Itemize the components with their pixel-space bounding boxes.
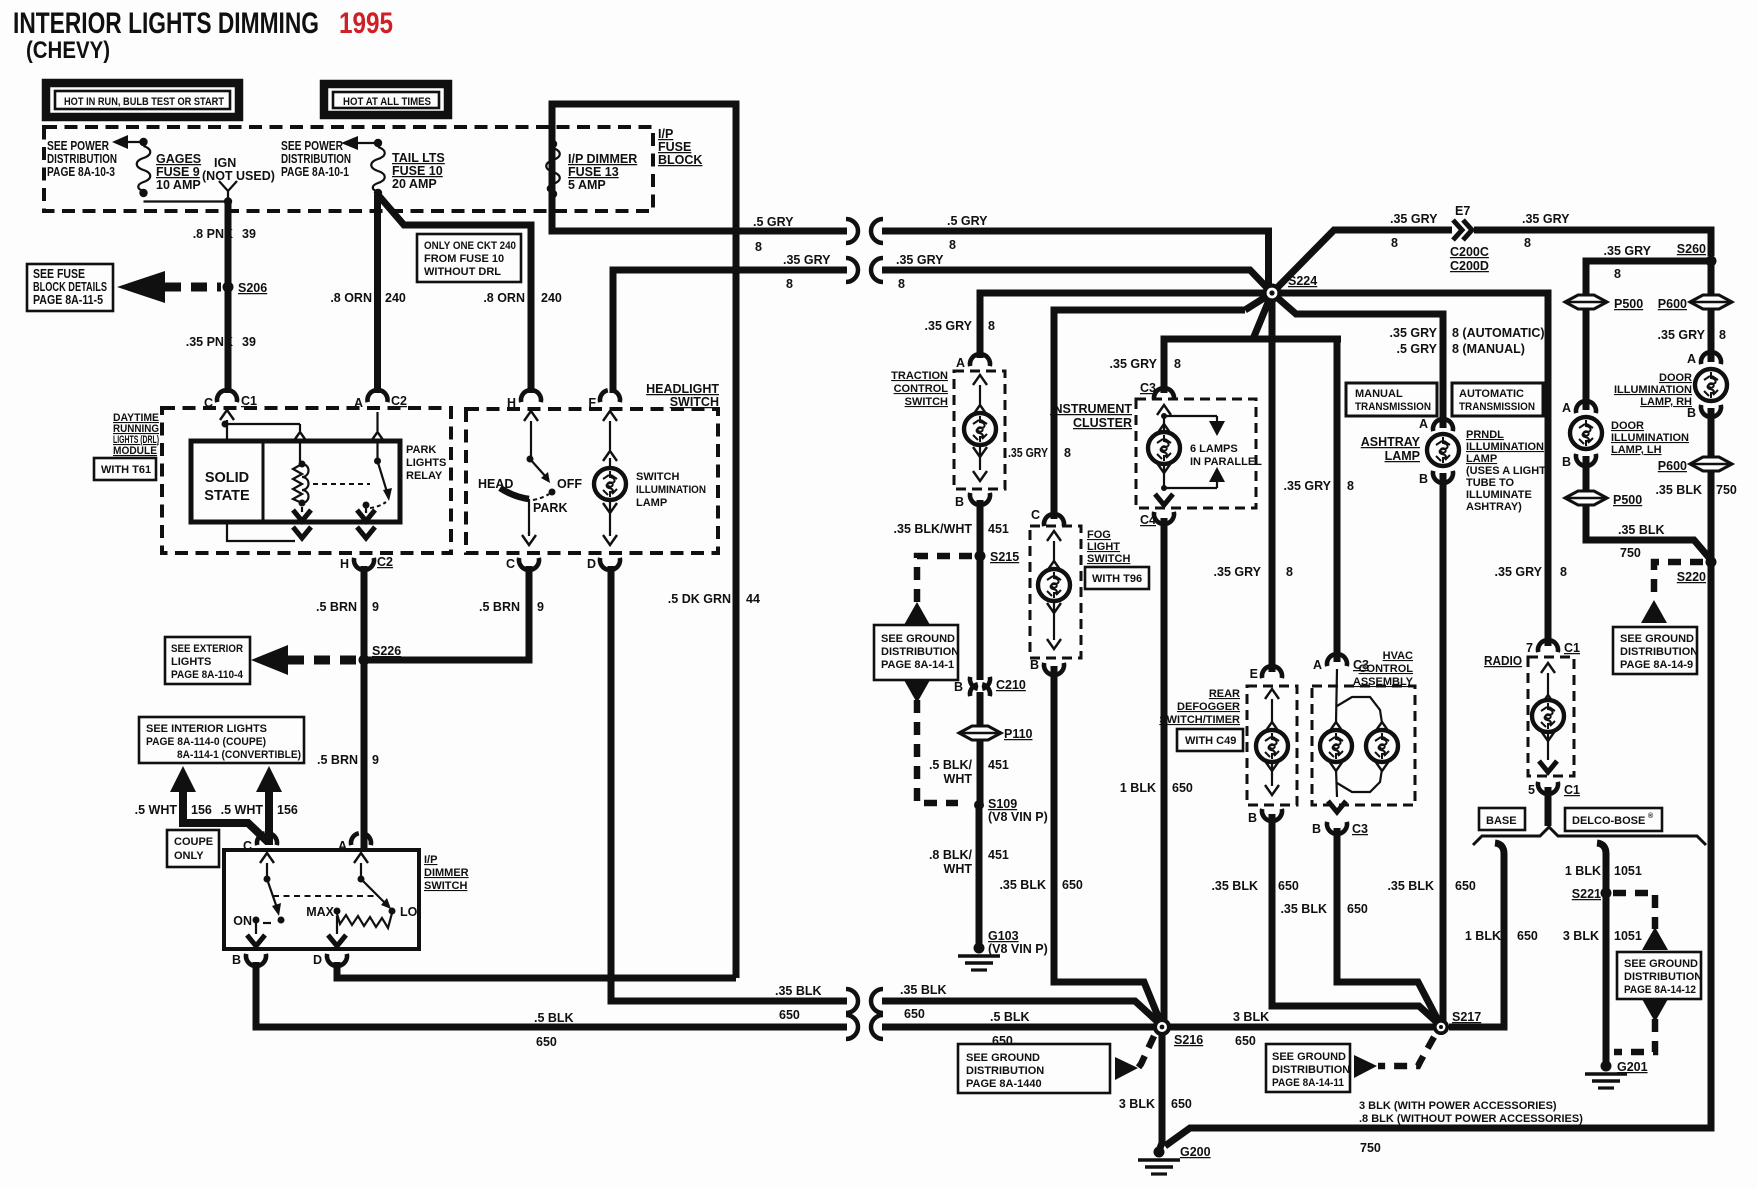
arrow down (8A-14-12) bbox=[1642, 999, 1668, 1022]
svg-text:LAMP: LAMP bbox=[636, 497, 667, 509]
label .8 PNK 39 bbox=[193, 227, 256, 241]
wire radio 5 to base/delco brace bbox=[1545, 787, 1552, 826]
svg-text:C3: C3 bbox=[1352, 822, 1368, 836]
HVAC dashed box bbox=[1312, 686, 1415, 805]
see ground distribution 8A-14-1 note bbox=[874, 625, 959, 680]
pin chevron F bbox=[603, 411, 617, 467]
svg-text:.5 DK GRN: .5 DK GRN bbox=[668, 592, 731, 606]
svg-text:CONTROL: CONTROL bbox=[894, 383, 949, 395]
svg-text:3 BLK: 3 BLK bbox=[1119, 1097, 1155, 1111]
svg-text:3 BLK: 3 BLK bbox=[1233, 1010, 1269, 1024]
svg-text:.35 BLK: .35 BLK bbox=[900, 983, 947, 997]
svg-text:.5 BLK: .5 BLK bbox=[990, 1010, 1030, 1024]
door illumination lamp LH bbox=[1570, 417, 1689, 456]
svg-text:HVAC: HVAC bbox=[1383, 650, 1413, 662]
FOG LIGHT SWITCH label bbox=[1087, 529, 1130, 565]
splice S216 bbox=[1153, 1018, 1203, 1047]
ground distribution dashed path (S220) bbox=[1654, 562, 1703, 601]
PRNDL illumination lamp note bbox=[1466, 429, 1546, 513]
pin chevron C1 bbox=[220, 410, 234, 441]
wire headlight C to S226 bbox=[368, 566, 529, 660]
wire wiper to C bbox=[522, 499, 536, 545]
wire base radio ground bbox=[1449, 843, 1504, 1027]
wire dimmer D to headlight D splice bbox=[337, 962, 736, 978]
splice S221 bbox=[1572, 887, 1612, 901]
svg-text:ON: ON bbox=[233, 914, 252, 928]
svg-text:S217: S217 bbox=[1452, 1010, 1481, 1024]
svg-text:A: A bbox=[354, 396, 363, 410]
svg-text:SEE GROUND: SEE GROUND bbox=[1620, 633, 1694, 645]
connector B (rear defogger) bbox=[1248, 809, 1282, 825]
svg-text:5: 5 bbox=[1528, 783, 1535, 797]
svg-text:PAGE 8A-14-11: PAGE 8A-14-11 bbox=[1272, 1077, 1344, 1089]
wire RH lamp B to S220 bbox=[1708, 408, 1715, 562]
svg-text:.35 BLK: .35 BLK bbox=[775, 984, 822, 998]
svg-text:3 BLK (WITH POWER ACCESSORIES: 3 BLK (WITH POWER ACCESSORIES) bbox=[1359, 1100, 1557, 1112]
svg-text:P500: P500 bbox=[1613, 493, 1642, 507]
label .5 BLK 650 (right) bbox=[990, 1010, 1030, 1048]
wire S260 to RH door lamp bbox=[1708, 261, 1715, 362]
in-line connector P600 (return) bbox=[1658, 457, 1732, 473]
TRACTION CONTROL SWITCH label bbox=[891, 370, 948, 408]
svg-text:.5 WHT: .5 WHT bbox=[135, 803, 178, 817]
relay coil bbox=[293, 461, 309, 507]
see power distribution arrow (left) bbox=[112, 135, 144, 149]
connector B (door lamp RH) bbox=[1687, 405, 1721, 420]
svg-text:RELAY: RELAY bbox=[406, 470, 443, 482]
switch illumination lamp label bbox=[636, 471, 706, 509]
svg-text:PAGE 8A-14-12: PAGE 8A-14-12 bbox=[1624, 984, 1696, 996]
svg-text:8: 8 bbox=[1391, 236, 1398, 250]
svg-text:FROM FUSE 10: FROM FUSE 10 bbox=[424, 253, 504, 265]
label .5 BRN 9 (left) bbox=[316, 600, 379, 614]
coupe feed arrow (left) bbox=[170, 766, 268, 842]
svg-text:.35 BLK: .35 BLK bbox=[1387, 879, 1434, 893]
svg-text:650: 650 bbox=[1517, 929, 1538, 943]
svg-text:INTERIOR LIGHTS DIMMING: INTERIOR LIGHTS DIMMING bbox=[13, 7, 319, 40]
svg-text:.35 GRY: .35 GRY bbox=[1110, 357, 1158, 371]
svg-text:.35 GRY: .35 GRY bbox=[925, 319, 973, 333]
svg-text:SWITCH/TIMER: SWITCH/TIMER bbox=[1159, 714, 1240, 726]
wire .5 GRY 8 (fuse 13 output) bbox=[736, 219, 858, 243]
radio lamp bbox=[1532, 663, 1564, 772]
svg-text:C200D: C200D bbox=[1450, 259, 1489, 273]
svg-text:10 AMP: 10 AMP bbox=[156, 178, 201, 192]
svg-text:156: 156 bbox=[277, 803, 298, 817]
svg-text:8: 8 bbox=[988, 319, 995, 333]
svg-text:TUBE TO: TUBE TO bbox=[1466, 477, 1515, 489]
dimmer ON/OFF switch bbox=[233, 853, 284, 928]
svg-text:HOT IN RUN, BULB TEST OR START: HOT IN RUN, BULB TEST OR START bbox=[64, 96, 224, 108]
svg-text:LIGHTS: LIGHTS bbox=[171, 656, 211, 668]
svg-text:.5 BRN: .5 BRN bbox=[317, 753, 358, 767]
see power distribution 8A-10-1 note bbox=[281, 139, 351, 179]
HVAC lamp 2 bbox=[1337, 697, 1398, 792]
traction control switch dashed box bbox=[954, 371, 1005, 489]
svg-text:6 LAMPS: 6 LAMPS bbox=[1190, 443, 1238, 455]
svg-text:(V8 VIN P): (V8 VIN P) bbox=[988, 942, 1048, 956]
svg-text:650: 650 bbox=[992, 1034, 1013, 1048]
I/P FUSE BLOCK label bbox=[658, 127, 702, 167]
svg-text:ILLUMINATION: ILLUMINATION bbox=[1611, 432, 1689, 444]
svg-text:8 (MANUAL): 8 (MANUAL) bbox=[1452, 342, 1525, 356]
svg-text:650: 650 bbox=[904, 1007, 925, 1021]
svg-text:TRANSMISSION: TRANSMISSION bbox=[1459, 401, 1535, 413]
wire .8 PNK 39 / .35 PNK 39 bbox=[225, 202, 232, 393]
svg-text:LIGHTS: LIGHTS bbox=[406, 457, 446, 469]
pin chevron H bbox=[524, 411, 538, 459]
svg-text:DISTRIBUTION: DISTRIBUTION bbox=[881, 646, 959, 658]
svg-text:SEE EXTERIOR: SEE EXTERIOR bbox=[171, 643, 243, 655]
6 lamps in parallel note bbox=[1164, 416, 1262, 488]
ground distribution dashed path (S215) bbox=[917, 556, 972, 606]
splice S217 (overlay ring) bbox=[1433, 1019, 1449, 1035]
wire .5 DK GRN 44 bbox=[733, 228, 740, 978]
svg-text:FUSE 9: FUSE 9 bbox=[156, 165, 200, 179]
wire LH lamp B to S220 bbox=[1586, 456, 1711, 560]
in-line connector P110 bbox=[959, 726, 1033, 741]
svg-text:A: A bbox=[1687, 352, 1696, 366]
HEAD position wiper bbox=[478, 477, 549, 500]
RADIO label bbox=[1484, 654, 1522, 668]
svg-text:C: C bbox=[204, 396, 213, 410]
label .35 GRY 8 (traction) bbox=[925, 319, 995, 333]
svg-text:WITHOUT DRL: WITHOUT DRL bbox=[424, 266, 501, 278]
title: (CHEVY) bbox=[26, 37, 110, 64]
svg-text:3 BLK: 3 BLK bbox=[1563, 929, 1599, 943]
rear defogger dashed box bbox=[1247, 686, 1297, 805]
svg-text:G201: G201 bbox=[1617, 1060, 1648, 1074]
svg-text:MANUAL: MANUAL bbox=[1355, 388, 1403, 400]
HVAC lamp 1 bbox=[1320, 669, 1352, 797]
svg-text:.35 GRY: .35 GRY bbox=[1214, 565, 1262, 579]
fuse 13 label bbox=[568, 152, 637, 192]
instrument cluster dashed box bbox=[1136, 399, 1256, 508]
svg-text:S221: S221 bbox=[1572, 887, 1601, 901]
in-line connector P500 (feed) bbox=[1565, 295, 1643, 311]
fuse 9 label bbox=[156, 152, 201, 192]
solid state ground link bbox=[227, 522, 295, 541]
coil ground pin chevrons bbox=[293, 507, 311, 538]
connector A (door lamp RH) bbox=[1687, 352, 1721, 366]
wire .8 ORN 240 (to A C2) bbox=[374, 195, 381, 393]
splice S260 bbox=[1677, 242, 1717, 267]
instrument cluster feed wire bbox=[1164, 293, 1341, 393]
svg-text:.5 BRN: .5 BRN bbox=[479, 600, 520, 614]
BASE box bbox=[1479, 808, 1525, 830]
svg-text:156: 156 bbox=[191, 803, 212, 817]
svg-text:650: 650 bbox=[779, 1008, 800, 1022]
svg-text:DISTRIBUTION: DISTRIBUTION bbox=[966, 1065, 1044, 1077]
HEADLIGHT SWITCH label bbox=[646, 382, 719, 409]
label .35 BLK 650 (right) bbox=[900, 983, 947, 1021]
see power distribution 8A-10-3 note bbox=[47, 139, 117, 179]
wire S260 to LH door lamp branch bbox=[1586, 261, 1711, 410]
WITH C49 box bbox=[1177, 729, 1243, 751]
connector A C2 (top) bbox=[354, 390, 407, 410]
svg-text:S215: S215 bbox=[990, 550, 1019, 564]
svg-text:8: 8 bbox=[1524, 236, 1531, 250]
label .5 DK GRN 44 bbox=[668, 592, 760, 606]
svg-text:BLOCK: BLOCK bbox=[658, 153, 702, 167]
label .35 BLK 650 (fog) bbox=[999, 878, 1082, 892]
fog light switch feed wire bbox=[1054, 293, 1272, 519]
label .35 GRY 8 (E7 left) bbox=[1390, 212, 1438, 250]
label .5 BLK 650 (left) bbox=[534, 1011, 574, 1049]
svg-text:8: 8 bbox=[1347, 479, 1354, 493]
svg-text:PAGE 8A-10-1: PAGE 8A-10-1 bbox=[281, 165, 349, 179]
svg-text:D: D bbox=[313, 953, 322, 967]
arrow up (ground dist 8A-14-1) bbox=[904, 602, 930, 625]
svg-text:HEAD: HEAD bbox=[478, 477, 513, 491]
svg-text:FUSE: FUSE bbox=[658, 140, 691, 154]
svg-text:C200C: C200C bbox=[1450, 245, 1489, 259]
connector C (dimmer) bbox=[243, 833, 277, 853]
svg-text:IN PARALLEL: IN PARALLEL bbox=[1190, 456, 1262, 468]
svg-text:.5 GRY: .5 GRY bbox=[1396, 342, 1437, 356]
svg-text:SWITCH: SWITCH bbox=[636, 471, 679, 483]
svg-text:.35 PNK: .35 PNK bbox=[186, 335, 233, 349]
svg-text:LAMP, LH: LAMP, LH bbox=[1611, 444, 1662, 456]
svg-text:.35 BLK: .35 BLK bbox=[999, 878, 1046, 892]
svg-text:ONLY: ONLY bbox=[174, 850, 204, 862]
note: only one ckt 240 bbox=[417, 234, 521, 282]
svg-text:PAGE 8A-110-4: PAGE 8A-110-4 bbox=[171, 669, 244, 681]
svg-text:(USES A LIGHT: (USES A LIGHT bbox=[1466, 465, 1546, 477]
label 1 BLK 650 (base) bbox=[1465, 929, 1538, 943]
svg-text:8: 8 bbox=[755, 240, 762, 254]
svg-text:1 BLK: 1 BLK bbox=[1565, 864, 1601, 878]
label .8 ORN 240 (left) bbox=[330, 291, 406, 305]
wire headlight D down bbox=[611, 566, 858, 1013]
svg-text:PARK: PARK bbox=[533, 501, 568, 515]
svg-text:LAMP, RH: LAMP, RH bbox=[1640, 396, 1692, 408]
switch illumination lamp bbox=[594, 468, 626, 500]
svg-text:C2: C2 bbox=[377, 555, 393, 569]
svg-text:LIGHT: LIGHT bbox=[1087, 541, 1120, 553]
REAR DEFOGGER SWITCH/TIMER label bbox=[1159, 688, 1240, 726]
svg-text:CONTROL: CONTROL bbox=[1359, 663, 1414, 675]
label .35 GRY / .5 GRY 8 bbox=[1390, 326, 1545, 356]
svg-text:PAGE 8A-1440: PAGE 8A-1440 bbox=[966, 1078, 1042, 1090]
svg-text:240: 240 bbox=[541, 291, 562, 305]
svg-text:8: 8 bbox=[1560, 565, 1567, 579]
svg-text:.35 GRY: .35 GRY bbox=[1604, 244, 1652, 258]
in-line connector P500 (return) bbox=[1565, 491, 1642, 507]
ground distribution dashed path (S216) bbox=[1138, 1036, 1154, 1068]
headlight switch dashed box bbox=[466, 409, 718, 553]
ground distribution dashed path (S217) bbox=[1378, 1037, 1434, 1066]
svg-text:B: B bbox=[955, 495, 964, 509]
svg-text:8A-114-1 (CONVERTIBLE): 8A-114-1 (CONVERTIBLE) bbox=[177, 749, 301, 761]
svg-text:CLUSTER: CLUSTER bbox=[1073, 416, 1132, 430]
svg-text:650: 650 bbox=[1455, 879, 1476, 893]
splice S226 bbox=[359, 644, 402, 666]
svg-text:SEE GROUND: SEE GROUND bbox=[966, 1052, 1040, 1064]
wire .35 GRY 8 (to headlight switch F) bbox=[613, 258, 858, 393]
wire S216 to G200 bbox=[1160, 1033, 1162, 1148]
ground distribution dashed path (S221) bbox=[1613, 893, 1655, 929]
wire .5 GRY 8 (resumed, to S224) bbox=[871, 219, 1269, 288]
svg-text:750: 750 bbox=[1716, 483, 1737, 497]
node: C1 branch dot bbox=[222, 421, 301, 428]
svg-text:PAGE 8A-10-3: PAGE 8A-10-3 bbox=[47, 165, 115, 179]
svg-text:8: 8 bbox=[1614, 267, 1621, 281]
wire S215 to C210 bbox=[977, 560, 984, 680]
svg-text:DISTRIBUTION: DISTRIBUTION bbox=[1272, 1064, 1350, 1076]
svg-text:P500: P500 bbox=[1614, 297, 1643, 311]
connector 5 C1 (radio) bbox=[1528, 782, 1580, 797]
svg-text:WITH T61: WITH T61 bbox=[101, 464, 151, 476]
svg-text:8: 8 bbox=[1286, 565, 1293, 579]
svg-text:650: 650 bbox=[1171, 1097, 1192, 1111]
splice S224 (overlay ring) bbox=[1263, 284, 1282, 303]
OFF position bbox=[549, 477, 583, 496]
radio dashed box bbox=[1528, 657, 1574, 776]
wire .5 BLK 650 resumed to S216 bbox=[871, 1015, 1155, 1039]
svg-text:A: A bbox=[1562, 401, 1571, 415]
svg-text:S226: S226 bbox=[372, 644, 401, 658]
svg-text:SEE GROUND: SEE GROUND bbox=[1272, 1051, 1346, 1063]
in-line connector E7 C200C C200D bbox=[1450, 204, 1489, 273]
svg-text:STATE: STATE bbox=[204, 488, 250, 504]
svg-text:650: 650 bbox=[1278, 879, 1299, 893]
wire fuse9 to IGN node bbox=[144, 197, 233, 205]
label 3 BLK 650 (to G200) bbox=[1119, 1097, 1192, 1111]
traction control feed wire bbox=[980, 293, 1266, 358]
wire .35 BLK 650 resumed to S216 bbox=[871, 989, 1159, 1023]
splice S220 bbox=[1677, 557, 1717, 585]
fog switch lamp bbox=[1038, 531, 1070, 649]
wire S220 down right edge to G200 run bbox=[1165, 566, 1711, 1146]
svg-text:650: 650 bbox=[1062, 878, 1083, 892]
svg-text:1051: 1051 bbox=[1614, 864, 1642, 878]
svg-text:C: C bbox=[506, 557, 515, 571]
dimmer D output bbox=[313, 916, 347, 967]
svg-text:(NOT USED): (NOT USED) bbox=[202, 169, 275, 183]
connector A (door lamp LH) bbox=[1562, 401, 1596, 415]
connector A C3 (HVAC) bbox=[1313, 654, 1369, 672]
svg-text:C210: C210 bbox=[996, 678, 1026, 692]
svg-text:A: A bbox=[1313, 658, 1322, 672]
svg-text:S220: S220 bbox=[1677, 570, 1706, 584]
svg-text:C1: C1 bbox=[1564, 641, 1580, 655]
svg-text:SWITCH: SWITCH bbox=[424, 880, 467, 892]
PARK LIGHTS RELAY label bbox=[406, 444, 446, 482]
svg-text:C: C bbox=[243, 839, 252, 853]
svg-text:451: 451 bbox=[988, 848, 1009, 862]
svg-text:.5 BRN: .5 BRN bbox=[316, 600, 357, 614]
svg-text:DOOR: DOOR bbox=[1659, 372, 1692, 384]
svg-text:650: 650 bbox=[1347, 902, 1368, 916]
label .8 BLK/WHT 451 bbox=[929, 848, 1009, 876]
label .35 BLK/WHT 451 bbox=[894, 522, 1009, 536]
svg-text:8: 8 bbox=[1174, 357, 1181, 371]
connector A (ashtray lamp) bbox=[1419, 417, 1453, 431]
svg-text:.35 BLK: .35 BLK bbox=[1211, 879, 1258, 893]
headlight switch wiper pivot bbox=[527, 456, 551, 484]
svg-text:SEE INTERIOR LIGHTS: SEE INTERIOR LIGHTS bbox=[146, 723, 267, 735]
svg-text:451: 451 bbox=[988, 522, 1009, 536]
ground distribution dashed path to S109 bbox=[917, 700, 958, 803]
svg-text:9: 9 bbox=[372, 753, 379, 767]
svg-text:PAGE 8A-11-5: PAGE 8A-11-5 bbox=[33, 293, 103, 307]
svg-text:WHT: WHT bbox=[944, 772, 973, 786]
svg-text:I/P: I/P bbox=[424, 854, 437, 866]
splice S215 bbox=[975, 550, 1020, 564]
label .35 GRY 8 (E7 right) bbox=[1522, 212, 1570, 250]
WITH T96 box bbox=[1085, 567, 1149, 589]
label .35 BLK 650 (left) bbox=[775, 984, 822, 1022]
svg-text:H: H bbox=[340, 557, 349, 571]
svg-text:DELCO-BOSE: DELCO-BOSE bbox=[1572, 815, 1645, 827]
door illumination lamp RH bbox=[1614, 369, 1727, 408]
connector C (headlight switch) bbox=[506, 557, 539, 571]
see ground distribution 8A-14-11 note bbox=[1266, 1044, 1350, 1092]
svg-text:.5 BLK: .5 BLK bbox=[534, 1011, 574, 1025]
traction switch lamp bbox=[964, 375, 996, 481]
connector B (door lamp LH) bbox=[1562, 454, 1596, 469]
see ground distribution 8A-1440 note bbox=[958, 1044, 1110, 1093]
fuse 10 label bbox=[392, 151, 445, 191]
svg-text:.35 GRY: .35 GRY bbox=[896, 253, 944, 267]
label 1 BLK 650 (cluster return) bbox=[1120, 781, 1193, 795]
fog light switch dashed box bbox=[1030, 526, 1081, 658]
svg-text:8 (AUTOMATIC): 8 (AUTOMATIC) bbox=[1452, 326, 1545, 340]
svg-text:SEE POWER: SEE POWER bbox=[47, 139, 109, 153]
ashtray lamp bbox=[1361, 434, 1459, 466]
svg-text:WHT: WHT bbox=[944, 862, 973, 876]
svg-text:E7: E7 bbox=[1455, 204, 1470, 218]
connector B (traction) bbox=[955, 493, 990, 509]
svg-text:INSTRUMENT: INSTRUMENT bbox=[1050, 402, 1132, 416]
I/P dimmer switch box bbox=[224, 850, 419, 949]
svg-text:.5 GRY: .5 GRY bbox=[753, 215, 794, 229]
wire S224 to radio bbox=[1272, 293, 1548, 646]
svg-text:ILLUMINATE: ILLUMINATE bbox=[1466, 489, 1532, 501]
svg-text:B: B bbox=[1030, 658, 1039, 672]
svg-text:F: F bbox=[588, 396, 596, 410]
svg-text:650: 650 bbox=[1235, 1034, 1256, 1048]
svg-text:SWITCH: SWITCH bbox=[905, 396, 948, 408]
title: INTERIOR LIGHTS DIMMING bbox=[13, 7, 319, 40]
relay actuate dashed link bbox=[313, 483, 370, 485]
svg-text:ONLY ONE CKT 240: ONLY ONE CKT 240 bbox=[424, 240, 516, 252]
label .35 BLK 650 (defogger return) bbox=[1211, 879, 1298, 893]
arrow up (8A-14-9) bbox=[1641, 600, 1667, 623]
PARK position bbox=[533, 501, 568, 515]
svg-text:G103: G103 bbox=[988, 929, 1019, 943]
svg-text:39: 39 bbox=[242, 227, 256, 241]
svg-text:HOT AT ALL TIMES: HOT AT ALL TIMES bbox=[343, 96, 431, 108]
label .35 GRY 8 (radio) bbox=[1495, 565, 1567, 579]
svg-text:9: 9 bbox=[372, 600, 379, 614]
ground G103 bbox=[958, 929, 1048, 970]
svg-text:COUPE: COUPE bbox=[174, 836, 213, 848]
wire S224 to E7 bbox=[1272, 230, 1452, 293]
svg-text:.35 GRY: .35 GRY bbox=[1658, 328, 1706, 342]
label .35 GRY 8 (LH branch) bbox=[1604, 244, 1652, 281]
svg-text:.35 BLK: .35 BLK bbox=[1280, 902, 1327, 916]
wire S109 to G103 bbox=[976, 805, 983, 945]
svg-text:DOOR: DOOR bbox=[1611, 420, 1644, 432]
svg-text:DIMMER: DIMMER bbox=[424, 867, 469, 879]
relay output pin chevrons bbox=[357, 510, 375, 538]
pin chevron relay coil feed bbox=[293, 424, 307, 464]
convertible feed arrow bbox=[256, 766, 282, 845]
svg-text:WITH C49: WITH C49 bbox=[1185, 735, 1236, 747]
svg-text:I/P: I/P bbox=[658, 127, 673, 141]
